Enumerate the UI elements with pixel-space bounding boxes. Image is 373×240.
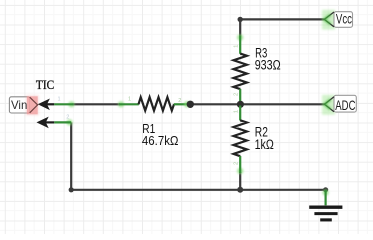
svg-text:1: 1	[58, 97, 61, 103]
node T junction bottom	[237, 187, 243, 193]
wire bottom horizontal	[71, 189, 325, 191]
resistor R1 pin 1 lead (green)	[119, 103, 139, 105]
resistor R2 pin 2 terminal glow	[237, 158, 243, 174]
node junction dot mid (main wire x vertical)	[237, 101, 244, 108]
node corner junction ground	[323, 187, 328, 192]
svg-text:Vin: Vin	[11, 99, 27, 112]
svg-text:2: 2	[234, 93, 240, 96]
ground symbol bars	[309, 207, 342, 220]
svg-text:933Ω: 933Ω	[255, 58, 281, 73]
connector TIC pin 2 terminal glow	[55, 119, 73, 125]
label R3	[255, 45, 267, 60]
node corner junction top	[238, 17, 243, 22]
svg-text:46.7kΩ: 46.7kΩ	[142, 133, 179, 148]
connector TIC pin 1 lead (green)	[54, 103, 73, 105]
resistor R3 pin 2 lead (green)	[239, 89, 241, 103]
resistor R1 pin 1 terminal glow	[118, 101, 138, 107]
svg-text:TIC: TIC	[36, 78, 54, 92]
svg-text:1: 1	[234, 110, 240, 113]
wire main horizontal TIC to R1	[73, 103, 121, 105]
connector TIC pin 1 arrow	[38, 99, 55, 111]
svg-text:Vcc: Vcc	[336, 11, 352, 26]
ground lead (green)	[325, 190, 327, 206]
resistor R2 body (zigzag)	[234, 120, 247, 156]
svg-text:2: 2	[234, 162, 240, 165]
pin number 2 of R1	[178, 98, 181, 104]
pin number 1 of TIC	[58, 97, 61, 103]
wire left vertical (TIC pin2 corner down to bottom wire)	[70, 122, 72, 189]
value 933Ω of R3	[255, 58, 281, 73]
connector TIC pin 2 lead (green)	[54, 121, 71, 123]
resistor R2 pin 1 lead (green)	[239, 106, 241, 121]
value 1kΩ of R2	[255, 137, 274, 152]
pin number 1 of R1	[128, 97, 131, 103]
pin number 2 of R3 (rotated)	[234, 93, 240, 96]
resistor R1 pin 2 lead (green)	[174, 103, 188, 105]
net flag Vcc	[322, 10, 353, 30]
label R2	[255, 124, 268, 139]
svg-text:1kΩ: 1kΩ	[255, 137, 274, 152]
wire right vertical lower (R2 pin2 to bottom wire)	[239, 172, 241, 193]
svg-text:ADC: ADC	[335, 97, 355, 113]
resistor R2 pin 2 lead (green)	[239, 156, 241, 173]
label R1	[142, 121, 155, 136]
svg-text:2: 2	[178, 98, 181, 104]
node junction dot after R1	[187, 101, 194, 108]
resistor R3 body (zigzag)	[234, 54, 247, 90]
pin number 2 of TIC	[66, 114, 69, 120]
wire main horizontal R1 to ADC	[187, 103, 325, 105]
pin number 1 of R3 (rotated)	[234, 45, 240, 48]
net flag Vin (red/unconnected highlight)	[9, 95, 38, 115]
wire right vertical upper (top corner to R3 pin 1)	[239, 18, 241, 36]
net flag ADC	[322, 95, 356, 115]
resistor R1 body (zigzag)	[139, 97, 175, 110]
resistor R3 pin 1 lead (green)	[239, 36, 241, 54]
pin number 2 of R2 (rotated)	[234, 162, 240, 165]
svg-text:2: 2	[66, 114, 69, 120]
resistor R3 pin 1 terminal glow	[237, 34, 243, 53]
value 46.7kΩ of R1	[142, 133, 179, 148]
wire top horizontal from node to Vcc	[240, 18, 324, 20]
connector TIC pin 1 terminal glow	[55, 101, 75, 107]
pin number 1 of R2 (rotated)	[234, 110, 240, 113]
svg-text:1: 1	[234, 45, 240, 48]
connector TIC pin 2 arrow	[37, 117, 55, 129]
label TIC (connector name)	[36, 78, 54, 92]
resistor R1 pin 2 terminal glow	[184, 101, 190, 107]
svg-text:1: 1	[128, 97, 131, 103]
ground terminal glow	[323, 189, 329, 204]
node corner junction bottom-left	[69, 187, 74, 192]
